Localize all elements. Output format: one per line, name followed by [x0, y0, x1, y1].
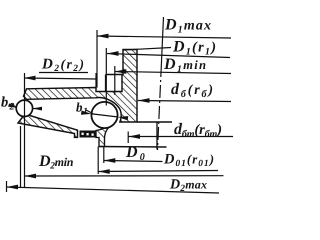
- d_b dim line: [138, 101, 231, 102]
- pocket wall: [105, 75, 107, 92]
- ledge under flange: [106, 74, 123, 76]
- label D1max: [165, 19, 211, 33]
- label d_bt(r_bt): [174, 123, 221, 137]
- base face line: [99, 146, 167, 149]
- b2 ball width dimension: [8, 103, 42, 110]
- label D2(r2): [42, 59, 83, 72]
- label D2max: [170, 179, 207, 191]
- ball b1: [91, 102, 117, 128]
- D2max dim line: [7, 187, 220, 193]
- cage bar with rivets: [80, 131, 97, 138]
- ball b2: [16, 100, 32, 116]
- label D0: [126, 147, 145, 161]
- ext d_bt: [127, 132, 129, 144]
- inner ring lip section: [96, 122, 113, 147]
- ext D0: [103, 147, 105, 164]
- D1(r1) dim line: [107, 54, 230, 58]
- D2(r2) shelf under text: [39, 72, 88, 74]
- b1 ball diameter dimension: [81, 110, 128, 120]
- label d_b(r_b): [171, 83, 212, 97]
- ext b2 / D2min: [24, 73, 26, 187]
- D1min dim line: [115, 72, 231, 74]
- D0 dim line: [104, 161, 163, 162]
- label D01(r01): [164, 154, 213, 166]
- bore wall at axis: [156, 122, 158, 150]
- axis centerline: [161, 17, 163, 64]
- label D1(r1): [173, 41, 215, 55]
- label b2: [1, 96, 14, 109]
- label b1: [76, 103, 87, 115]
- ext D01: [97, 147, 99, 175]
- label D1min: [164, 59, 206, 73]
- ext D1min: [114, 66, 116, 95]
- d_bt dim line: [129, 136, 234, 138]
- D1(r1) leader to label: [123, 48, 171, 51]
- inner ring lower strip section: [18, 114, 78, 137]
- D2(r2) dim line: [24, 78, 97, 79]
- ext lower strip tip: [20, 126, 22, 187]
- label D2min: [39, 156, 73, 169]
- D2min dim line: [25, 175, 224, 177]
- ext D1: [105, 48, 107, 106]
- ext D2max: [6, 181, 8, 192]
- ext D2(r2) right: [95, 73, 97, 88]
- ext D1max: [96, 30, 98, 88]
- D1max dim line: [97, 36, 231, 38]
- bottom edge of block to axis: [137, 121, 172, 123]
- outer ring section: strip + flange + block: [24, 50, 138, 123]
- D01 dim line: [98, 171, 218, 172]
